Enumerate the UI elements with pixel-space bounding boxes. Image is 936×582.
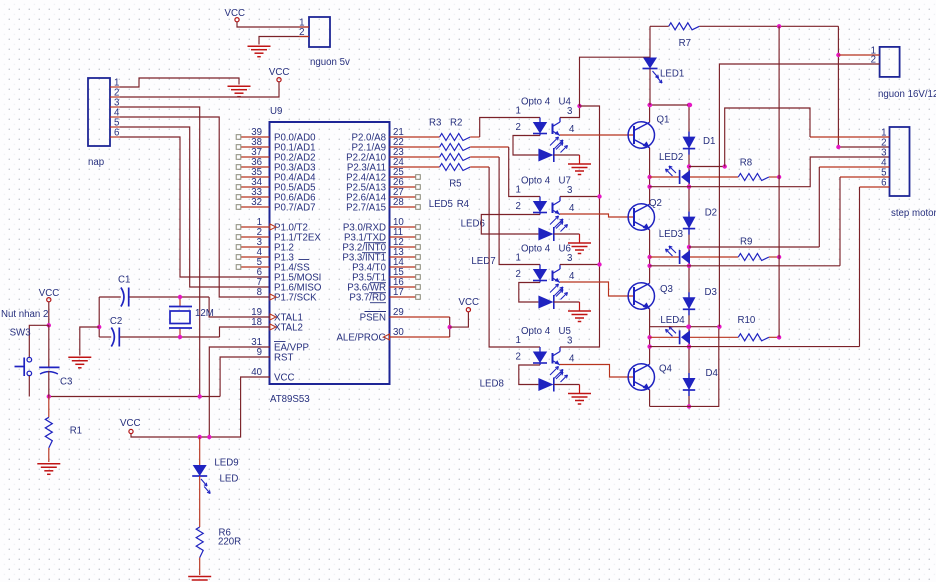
svg-text:VCC: VCC: [274, 373, 294, 384]
svg-text:4: 4: [569, 203, 575, 214]
svg-text:LED5: LED5: [429, 199, 453, 210]
svg-text:D1: D1: [703, 136, 715, 147]
svg-text:LED2: LED2: [659, 152, 683, 163]
svg-text:XTAL2: XTAL2: [274, 323, 303, 334]
svg-text:nguon 5v: nguon 5v: [310, 57, 350, 68]
svg-text:C3: C3: [60, 377, 72, 388]
svg-text:3: 3: [567, 106, 572, 117]
svg-text:R5: R5: [449, 179, 461, 190]
svg-text:2: 2: [516, 201, 521, 212]
svg-text:VCC: VCC: [459, 297, 479, 308]
svg-text:40: 40: [251, 367, 262, 378]
svg-text:17: 17: [393, 287, 404, 298]
svg-text:R3: R3: [429, 118, 441, 129]
svg-text:nap: nap: [88, 157, 104, 168]
svg-text:P0.7/AD7: P0.7/AD7: [274, 203, 315, 214]
svg-text:D3: D3: [705, 287, 717, 298]
svg-text:Opto 4: Opto 4: [521, 326, 551, 337]
svg-text:Q2: Q2: [649, 198, 662, 209]
svg-text:R4: R4: [457, 199, 470, 210]
svg-text:R7: R7: [679, 38, 691, 49]
svg-text:RST: RST: [274, 353, 293, 364]
svg-text:1: 1: [516, 253, 521, 264]
svg-text:30: 30: [393, 327, 404, 338]
svg-text:18: 18: [251, 317, 262, 328]
svg-text:LED8: LED8: [480, 379, 504, 390]
svg-text:Opto 4: Opto 4: [521, 244, 551, 255]
svg-text:R9: R9: [740, 237, 752, 248]
svg-text:32: 32: [251, 197, 262, 208]
svg-text:2: 2: [871, 55, 876, 66]
svg-text:U9: U9: [270, 106, 282, 117]
svg-text:4: 4: [569, 354, 575, 365]
svg-text:LED4: LED4: [660, 315, 685, 326]
svg-text:2: 2: [516, 122, 521, 133]
svg-text:6: 6: [114, 128, 119, 139]
svg-text:1: 1: [516, 106, 521, 117]
svg-text:4: 4: [569, 124, 575, 135]
svg-text:3: 3: [567, 336, 572, 347]
svg-text:R8: R8: [740, 158, 752, 169]
svg-text:LED3: LED3: [659, 229, 683, 240]
svg-text:D2: D2: [705, 208, 717, 219]
svg-text:VCC: VCC: [120, 418, 140, 429]
svg-text:4: 4: [569, 271, 575, 282]
svg-text:Q1: Q1: [657, 115, 670, 126]
svg-text:R1: R1: [70, 426, 82, 437]
svg-text:28: 28: [393, 197, 404, 208]
svg-text:LED: LED: [220, 474, 239, 485]
svg-text:8: 8: [257, 287, 262, 298]
svg-text:Opto 4: Opto 4: [521, 176, 551, 187]
svg-text:220R: 220R: [218, 537, 241, 548]
svg-text:P2.7/A15: P2.7/A15: [346, 203, 386, 214]
svg-text:2: 2: [299, 27, 304, 38]
svg-text:P1.7/SCK: P1.7/SCK: [274, 293, 317, 304]
svg-text:29: 29: [393, 307, 404, 318]
svg-text:D4: D4: [706, 368, 719, 379]
svg-text:1: 1: [516, 335, 521, 346]
svg-text:SW3: SW3: [10, 328, 31, 339]
svg-text:AT89S53: AT89S53: [270, 394, 310, 405]
svg-text:LED7: LED7: [471, 256, 495, 267]
svg-text:2: 2: [516, 352, 521, 363]
svg-text:Nut nhan 2: Nut nhan 2: [1, 309, 48, 320]
svg-text:nguon 16V/12: nguon 16V/12: [878, 89, 936, 100]
svg-text:1: 1: [516, 185, 521, 196]
svg-text:LED9: LED9: [214, 458, 238, 469]
svg-text:VCC: VCC: [269, 67, 289, 78]
svg-text:ALE/PROG: ALE/PROG: [336, 333, 386, 344]
svg-text:C2: C2: [110, 316, 122, 327]
svg-text:Q4: Q4: [659, 364, 673, 375]
svg-text:2: 2: [516, 269, 521, 280]
svg-text:step motor: step motor: [891, 208, 936, 219]
svg-text:PSEN: PSEN: [360, 313, 386, 324]
svg-text:R2: R2: [450, 118, 462, 129]
svg-text:Q3: Q3: [660, 284, 673, 295]
svg-text:P3.7/RD: P3.7/RD: [349, 293, 386, 304]
svg-text:R10: R10: [738, 315, 756, 326]
svg-text:3: 3: [567, 185, 572, 196]
svg-text:12M: 12M: [195, 308, 214, 319]
svg-text:3: 3: [567, 253, 572, 264]
svg-text:9: 9: [257, 347, 262, 358]
svg-text:LED1: LED1: [660, 69, 684, 80]
svg-text:C1: C1: [118, 275, 130, 286]
svg-text:Opto 4: Opto 4: [521, 97, 551, 108]
svg-text:VCC: VCC: [225, 8, 245, 19]
